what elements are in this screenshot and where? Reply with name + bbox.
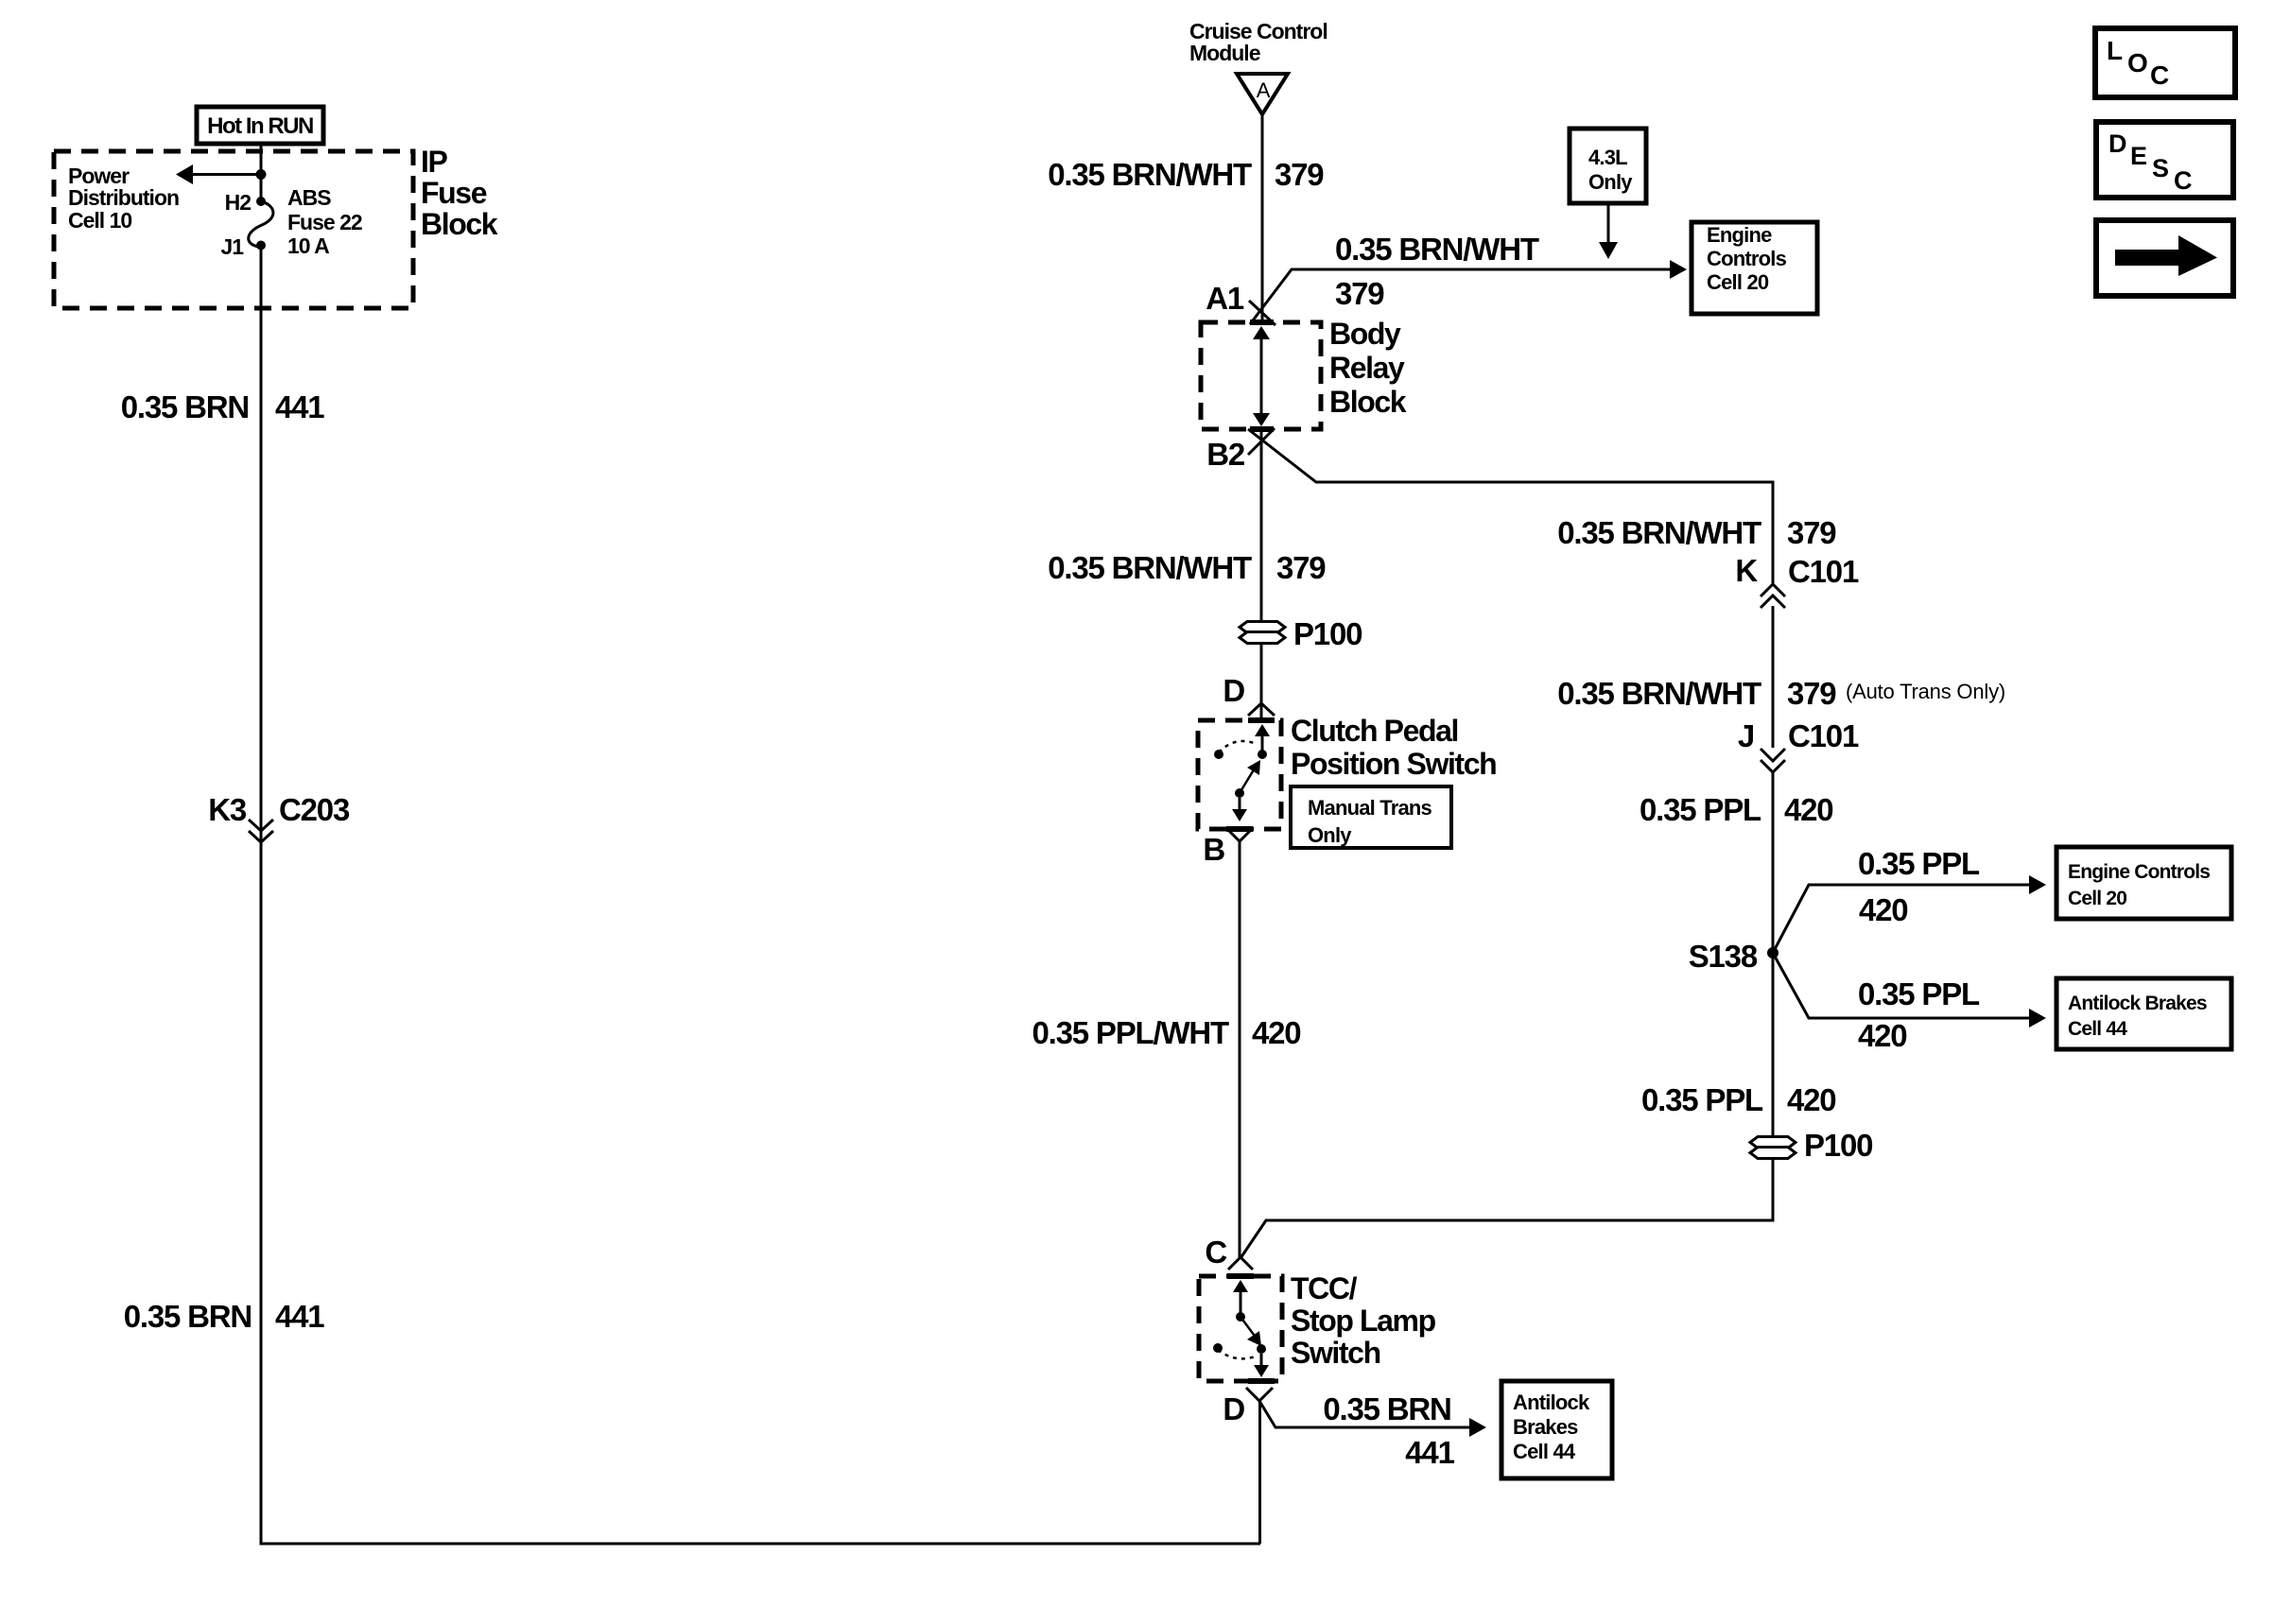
- svg-text:Engine: Engine: [1707, 223, 1772, 247]
- svg-text:0.35 BRN/WHT: 0.35 BRN/WHT: [1557, 515, 1761, 550]
- svg-text:J1: J1: [220, 234, 244, 259]
- svg-text:C: C: [1205, 1235, 1226, 1270]
- svg-text:J: J: [1738, 718, 1754, 753]
- svg-text:S: S: [2152, 154, 2169, 182]
- svg-text:0.35 PPL: 0.35 PPL: [1640, 792, 1761, 827]
- svg-text:0.35 PPL: 0.35 PPL: [1641, 1082, 1763, 1117]
- svg-text:4.3L: 4.3L: [1588, 146, 1627, 169]
- svg-text:Body: Body: [1329, 317, 1401, 351]
- svg-text:379: 379: [1787, 515, 1836, 550]
- svg-text:Fuse 22: Fuse 22: [287, 210, 362, 234]
- svg-text:C203: C203: [279, 792, 350, 827]
- svg-text:Cell 20: Cell 20: [1707, 270, 1769, 294]
- svg-text:D: D: [1223, 1391, 1244, 1426]
- svg-text:Cell 44: Cell 44: [2068, 1018, 2127, 1040]
- svg-text:Brakes: Brakes: [1513, 1415, 1578, 1439]
- svg-text:H2: H2: [225, 190, 252, 215]
- svg-text:420: 420: [1858, 1018, 1906, 1053]
- svg-text:Block: Block: [1329, 385, 1407, 419]
- svg-text:Cell 20: Cell 20: [2068, 888, 2126, 909]
- svg-text:D: D: [2108, 130, 2127, 158]
- svg-text:D: D: [1223, 673, 1244, 708]
- svg-text:Stop Lamp: Stop Lamp: [1291, 1304, 1436, 1338]
- svg-text:Switch: Switch: [1291, 1336, 1380, 1370]
- svg-text:0.35 BRN/WHT: 0.35 BRN/WHT: [1335, 232, 1539, 267]
- svg-text:379: 379: [1275, 157, 1324, 192]
- svg-text:E: E: [2130, 142, 2147, 170]
- svg-text:K3: K3: [208, 792, 247, 827]
- svg-text:0.35 BRN/WHT: 0.35 BRN/WHT: [1048, 550, 1252, 585]
- svg-text:Relay: Relay: [1329, 351, 1405, 385]
- svg-text:420: 420: [1787, 1082, 1835, 1117]
- svg-text:Engine Controls: Engine Controls: [2068, 861, 2210, 883]
- svg-text:C101: C101: [1788, 718, 1859, 753]
- svg-text:0.35 BRN/WHT: 0.35 BRN/WHT: [1557, 676, 1761, 711]
- svg-text:Only: Only: [1308, 823, 1352, 847]
- svg-text:P100: P100: [1293, 616, 1362, 651]
- svg-text:C: C: [2150, 60, 2169, 90]
- svg-text:0.35 BRN: 0.35 BRN: [1323, 1391, 1450, 1426]
- svg-text:O: O: [2127, 48, 2148, 78]
- svg-text:0.35 PPL: 0.35 PPL: [1858, 976, 1980, 1011]
- svg-text:0.35 PPL/WHT: 0.35 PPL/WHT: [1032, 1015, 1230, 1050]
- svg-text:0.35 PPL: 0.35 PPL: [1858, 846, 1980, 881]
- svg-text:Cell 44: Cell 44: [1513, 1440, 1576, 1463]
- svg-text:Antilock Brakes: Antilock Brakes: [2068, 993, 2207, 1014]
- svg-text:420: 420: [1859, 892, 1907, 927]
- svg-text:(Auto Trans Only): (Auto Trans Only): [1846, 680, 2005, 703]
- svg-text:0.35 BRN: 0.35 BRN: [121, 389, 249, 424]
- svg-text:Clutch Pedal: Clutch Pedal: [1291, 714, 1458, 748]
- svg-text:B2: B2: [1206, 437, 1245, 472]
- svg-text:420: 420: [1784, 792, 1832, 827]
- svg-text:Position Switch: Position Switch: [1291, 747, 1496, 781]
- svg-text:0.35 BRN: 0.35 BRN: [124, 1299, 252, 1334]
- svg-text:379: 379: [1335, 276, 1384, 311]
- svg-text:Fuse: Fuse: [421, 176, 487, 210]
- svg-text:B: B: [1203, 832, 1224, 867]
- svg-text:379: 379: [1787, 676, 1836, 711]
- svg-text:Block: Block: [421, 207, 498, 241]
- svg-text:Manual Trans: Manual Trans: [1308, 796, 1432, 820]
- svg-text:Only: Only: [1588, 170, 1633, 194]
- svg-text:10 A: 10 A: [287, 233, 329, 258]
- svg-text:Controls: Controls: [1707, 247, 1787, 270]
- svg-text:C: C: [2174, 166, 2193, 195]
- svg-text:Hot In RUN: Hot In RUN: [207, 113, 313, 139]
- svg-text:L: L: [2107, 36, 2123, 65]
- svg-text:379: 379: [1276, 550, 1326, 585]
- svg-text:A: A: [1257, 78, 1271, 102]
- svg-text:420: 420: [1252, 1015, 1300, 1050]
- svg-text:P100: P100: [1804, 1128, 1872, 1163]
- svg-text:Antilock: Antilock: [1513, 1391, 1590, 1414]
- svg-text:441: 441: [275, 1299, 324, 1334]
- svg-text:441: 441: [1405, 1435, 1454, 1470]
- svg-text:Distribution: Distribution: [68, 185, 179, 210]
- svg-text:C101: C101: [1788, 554, 1859, 589]
- svg-text:K: K: [1735, 553, 1758, 588]
- svg-text:A1: A1: [1206, 281, 1244, 316]
- svg-text:0.35 BRN/WHT: 0.35 BRN/WHT: [1048, 157, 1252, 192]
- svg-text:TCC/: TCC/: [1291, 1271, 1358, 1305]
- svg-text:441: 441: [275, 389, 324, 424]
- svg-text:ABS: ABS: [287, 185, 331, 210]
- svg-text:Module: Module: [1189, 41, 1260, 65]
- svg-text:Cell 10: Cell 10: [68, 208, 131, 233]
- svg-text:IP: IP: [421, 145, 447, 179]
- svg-text:S138: S138: [1689, 939, 1758, 974]
